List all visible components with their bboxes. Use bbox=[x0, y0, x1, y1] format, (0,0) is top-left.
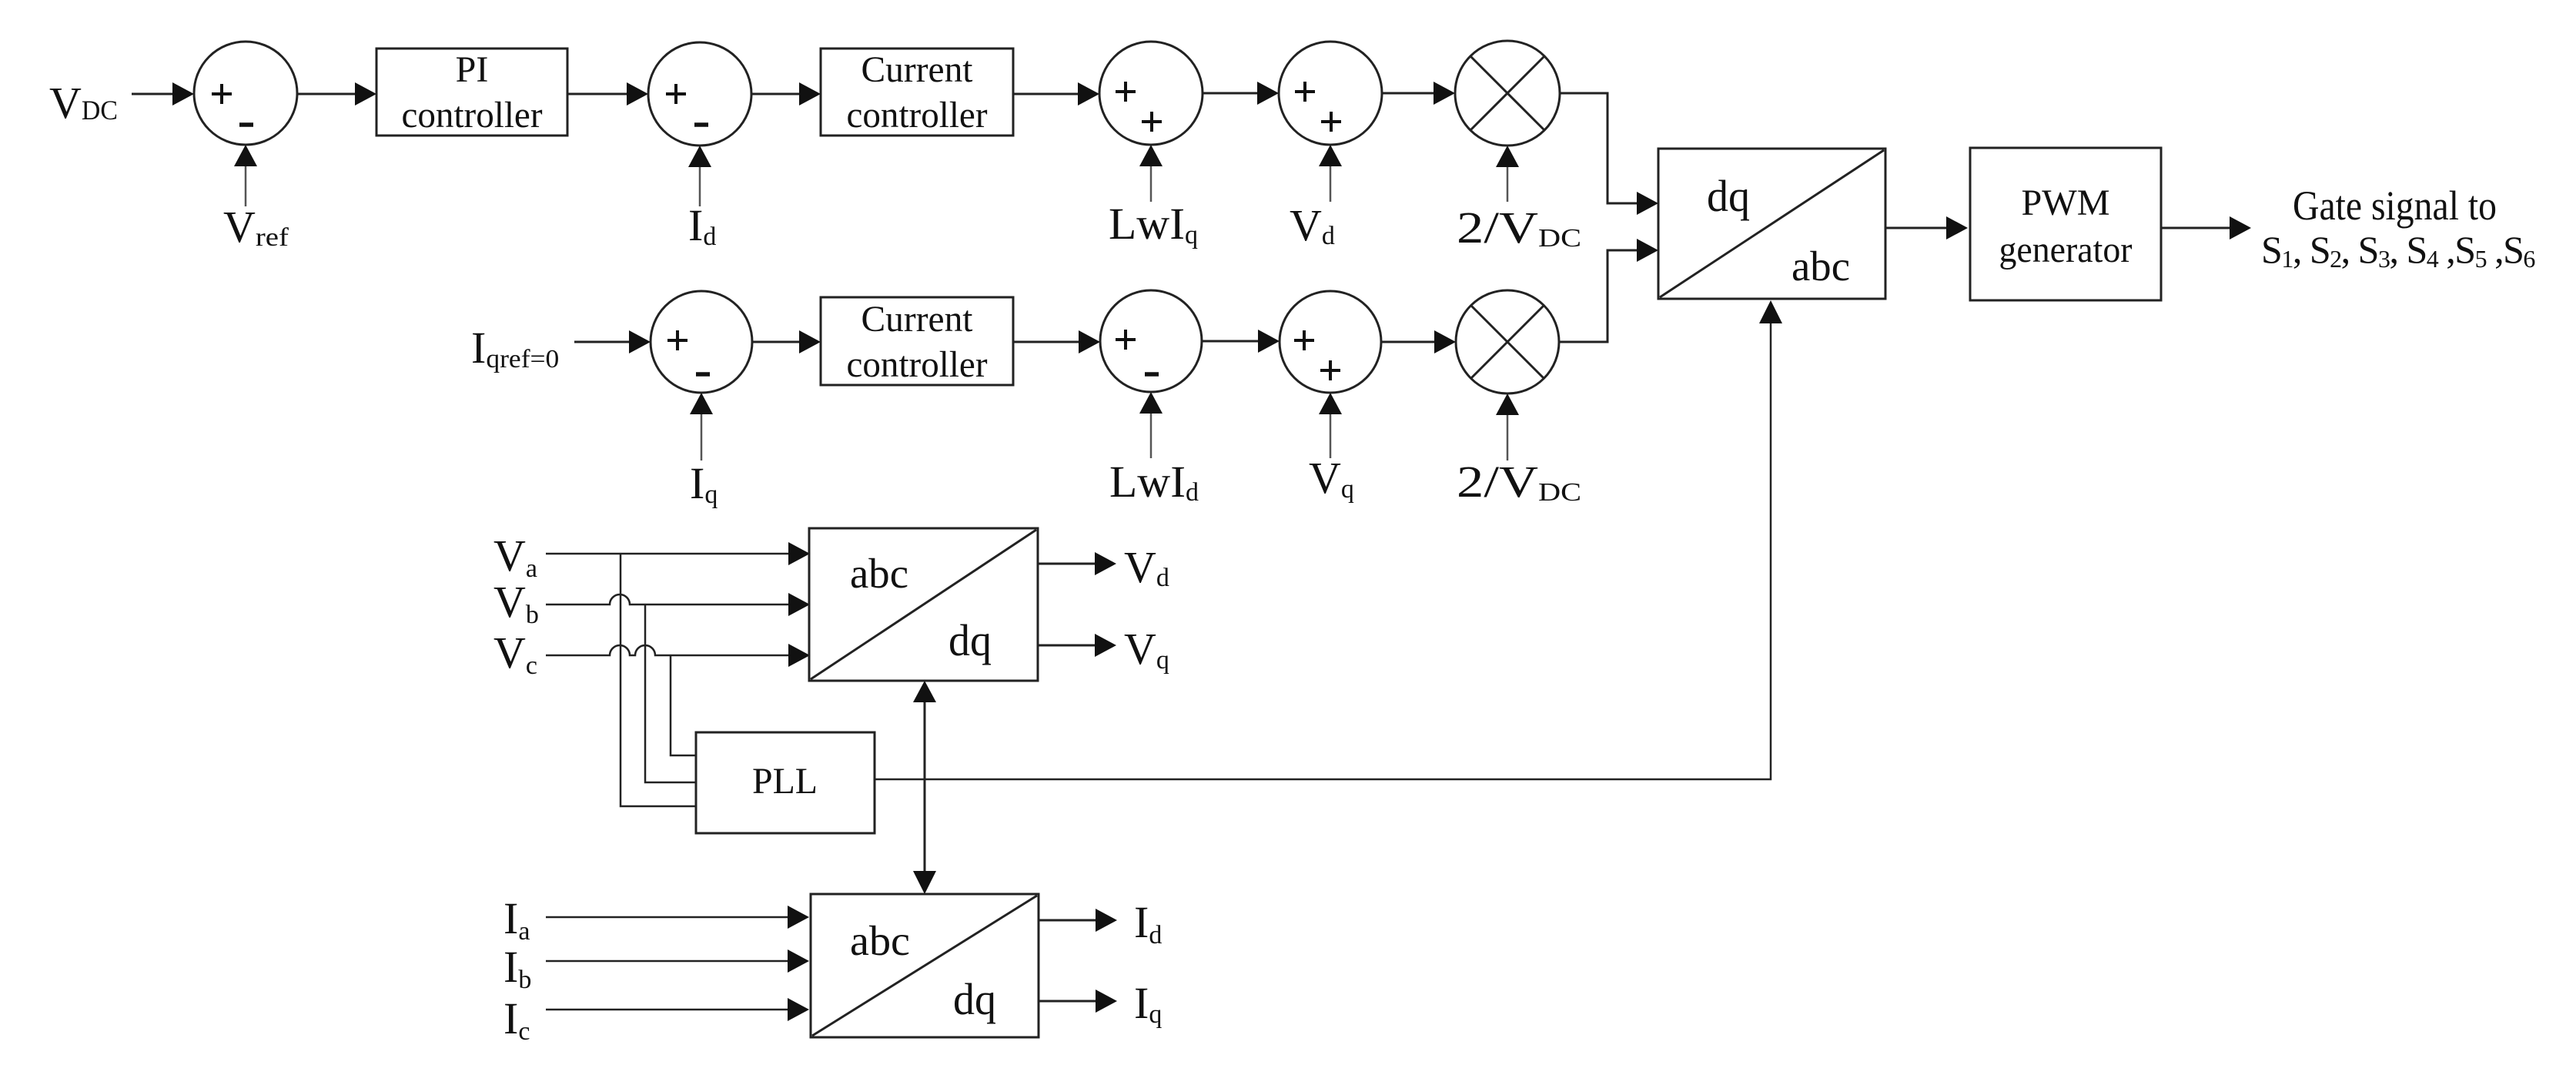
wire S6 to S7 bbox=[1202, 340, 1260, 343]
wire Ib input bbox=[546, 960, 789, 963]
arrowhead Iq into S5 bbox=[690, 393, 713, 414]
wire Vq output bbox=[1038, 645, 1096, 647]
wire S1 to PI controller bbox=[297, 93, 356, 95]
wire PLL theta down to abc-dq2 bbox=[924, 779, 926, 871]
summing junction S4 bbox=[1279, 42, 1382, 145]
arrowhead into PI controller bbox=[355, 82, 376, 105]
wire VDC input bbox=[132, 93, 176, 95]
wire Current controller 1 to S3 bbox=[1013, 93, 1079, 95]
arrowhead Vb into abc-dq1 bbox=[788, 593, 810, 616]
svg-text:dq: dq bbox=[953, 974, 996, 1024]
wire Ia input bbox=[546, 916, 789, 919]
arrowhead into S2 bbox=[627, 82, 648, 105]
wire Id output bbox=[1039, 919, 1097, 922]
svg-text:controller: controller bbox=[847, 95, 988, 136]
wire Vc input with two hops bbox=[546, 645, 790, 655]
wire S7 to M2 bbox=[1381, 341, 1436, 343]
wire Iq output bbox=[1039, 1000, 1097, 1003]
summing junction S1 bbox=[194, 42, 297, 145]
wire S5 to Current controller 2 bbox=[752, 341, 801, 343]
block PI controller bbox=[376, 49, 567, 136]
svg-text:S1, S2, S3, S4 ,S5 ,S6: S1, S2, S3, S4 ,S5 ,S6 bbox=[2261, 228, 2535, 273]
wire Vq arrow stem bbox=[1330, 414, 1332, 458]
arrowhead to gate signal text bbox=[2230, 216, 2251, 239]
arrowhead 2/VDC into M1 bbox=[1496, 146, 1519, 167]
wire Vb input with hop bbox=[546, 594, 790, 604]
arrowhead Id output bbox=[1096, 909, 1117, 932]
arrowhead VDC into S1 bbox=[172, 82, 194, 105]
plus sign S5 bbox=[667, 330, 687, 350]
wire Iq arrow stem bbox=[701, 414, 703, 460]
label Current controller 1 bbox=[847, 49, 988, 136]
arrowhead Iqref into S5 bbox=[629, 330, 651, 353]
svg-text:dq: dq bbox=[1707, 171, 1750, 221]
arrowhead into PWM generator bbox=[1946, 216, 1968, 239]
arrowhead into S4 bbox=[1257, 82, 1279, 105]
wire PI to S2 bbox=[567, 93, 628, 95]
arrowhead Ib into abc-dq2 bbox=[788, 949, 809, 973]
multiplier M1 bbox=[1455, 41, 1560, 146]
arrowhead into S3 bbox=[1078, 82, 1099, 105]
arrowhead into Current controller 2 bbox=[799, 330, 821, 353]
arrowhead into dq-abc input1 bbox=[1637, 192, 1658, 215]
svg-text:abc: abc bbox=[1791, 243, 1850, 290]
wire Current controller 2 to S6 bbox=[1013, 341, 1080, 343]
svg-text:dq: dq bbox=[948, 615, 992, 665]
arrowhead PLL line up into dq-abc bottom bbox=[1759, 300, 1782, 323]
arrowhead theta down into abc-dq2 top bbox=[913, 871, 936, 894]
block abc to dq current bbox=[811, 894, 1039, 1037]
wire S3 to S4 bbox=[1203, 92, 1259, 95]
arrowhead theta up into abc-dq1 bottom bbox=[913, 681, 936, 702]
arrowhead into S6 bbox=[1079, 330, 1100, 353]
arrowhead Vq output bbox=[1095, 634, 1116, 657]
plus sign S6 bbox=[1116, 330, 1136, 350]
svg-text:PLL: PLL bbox=[752, 761, 818, 802]
wire PLL theta up to abc-dq1 bbox=[924, 702, 926, 779]
svg-text:LwIq: LwIq bbox=[1109, 199, 1198, 249]
arrowhead Vq into S7 bbox=[1319, 393, 1342, 414]
arrowhead Id into S2 bbox=[688, 146, 711, 167]
arrowhead Ia into abc-dq2 bbox=[788, 906, 809, 929]
arrowhead into Current controller 1 bbox=[799, 82, 821, 105]
block Current controller 2 bbox=[821, 297, 1013, 385]
wire Vb tap to PLL bbox=[645, 604, 696, 782]
svg-text:PI: PI bbox=[456, 49, 489, 90]
minus sign S1 bbox=[239, 122, 253, 127]
wire Id arrow stem bbox=[699, 167, 701, 206]
summing junction S5 bbox=[651, 291, 752, 393]
wire Ic input bbox=[546, 1009, 789, 1011]
svg-text:abc: abc bbox=[850, 917, 910, 964]
wire LwIq arrow stem bbox=[1150, 166, 1153, 202]
arrowhead into S7 bbox=[1258, 330, 1280, 353]
arrowhead into M2 bbox=[1434, 330, 1456, 353]
wire M2 to dq-abc input2 bbox=[1559, 250, 1638, 342]
plus sign S2 bbox=[666, 84, 686, 104]
minus sign S2 bbox=[694, 122, 708, 127]
minus sign S5 bbox=[696, 372, 710, 377]
svg-text:Current: Current bbox=[861, 299, 974, 340]
arrowhead Ic into abc-dq2 bbox=[788, 998, 809, 1021]
wire Vd arrow stem bbox=[1330, 166, 1332, 202]
wire Vref arrow stem bbox=[245, 166, 247, 206]
summing junction S7 bbox=[1280, 291, 1381, 393]
svg-text:abc: abc bbox=[850, 550, 908, 597]
wire Iqref input bbox=[574, 341, 631, 343]
arrowhead LwIq into S3 bbox=[1139, 145, 1163, 166]
minus sign S6 bbox=[1145, 372, 1159, 377]
arrowhead LwId into S6 bbox=[1139, 392, 1163, 414]
wire Va tap to PLL bbox=[621, 554, 696, 806]
svg-text:generator: generator bbox=[1999, 229, 2133, 270]
summing junction S6 bbox=[1100, 290, 1202, 392]
arrowhead 2/VDC into M2 bbox=[1496, 393, 1519, 415]
plus sign S1 bbox=[212, 84, 232, 104]
label PI controller bbox=[402, 49, 543, 136]
wire dq-abc to PWM generator bbox=[1885, 227, 1948, 229]
svg-text:Current: Current bbox=[861, 49, 974, 90]
label PWM generator bbox=[1999, 183, 2133, 270]
wire 2/VDC arrow stem row1 bbox=[1507, 167, 1509, 202]
arrowhead Vref into S1 bbox=[234, 145, 257, 166]
wire PWM generator to gate signal bbox=[2161, 227, 2231, 229]
plus sign S3 bottom bbox=[1142, 112, 1162, 132]
arrowhead Vd output bbox=[1095, 552, 1116, 575]
block PLL bbox=[696, 732, 875, 833]
plus sign S4 bottom bbox=[1321, 112, 1341, 132]
summing junction S3 bbox=[1099, 42, 1203, 145]
wire M1 to dq-abc input1 bbox=[1560, 93, 1638, 203]
block Current controller 1 bbox=[821, 49, 1013, 136]
wire LwId arrow stem bbox=[1150, 414, 1153, 458]
wire Vc tap to PLL bbox=[671, 655, 696, 755]
svg-text:Gate signal to: Gate signal to bbox=[2293, 183, 2497, 229]
block dq to abc bbox=[1658, 149, 1885, 299]
block PWM generator bbox=[1970, 148, 2161, 300]
plus sign S7 bottom bbox=[1320, 360, 1340, 380]
svg-text:LwId: LwId bbox=[1109, 457, 1199, 507]
label Current controller 2 bbox=[847, 299, 988, 385]
wire S4 to M1 bbox=[1382, 92, 1435, 95]
wire 2/VDC arrow stem row2 bbox=[1507, 415, 1509, 460]
arrowhead Vc into abc-dq1 bbox=[788, 644, 810, 667]
multiplier M2 bbox=[1456, 290, 1559, 393]
svg-text:controller: controller bbox=[847, 344, 988, 385]
wire Va input bbox=[546, 553, 790, 555]
svg-text:controller: controller bbox=[402, 95, 543, 136]
arrowhead Vd into S4 bbox=[1319, 145, 1342, 166]
svg-text:PWM: PWM bbox=[2022, 183, 2110, 223]
plus sign S3 left bbox=[1116, 82, 1136, 102]
arrowhead into M1 bbox=[1434, 82, 1455, 105]
plus sign S7 left bbox=[1294, 330, 1314, 350]
wire S2 to Current controller 1 bbox=[751, 93, 801, 95]
summing junction S2 bbox=[648, 42, 751, 146]
arrowhead into dq-abc input2 bbox=[1637, 239, 1658, 262]
wire Vd output bbox=[1038, 563, 1096, 565]
plus sign S4 left bbox=[1295, 82, 1315, 102]
block abc to dq voltage bbox=[809, 528, 1038, 681]
arrowhead Va into abc-dq1 bbox=[788, 542, 810, 565]
wire PLL output to dq-abc bottom bbox=[875, 323, 1771, 779]
arrowhead Iq output bbox=[1096, 990, 1117, 1013]
